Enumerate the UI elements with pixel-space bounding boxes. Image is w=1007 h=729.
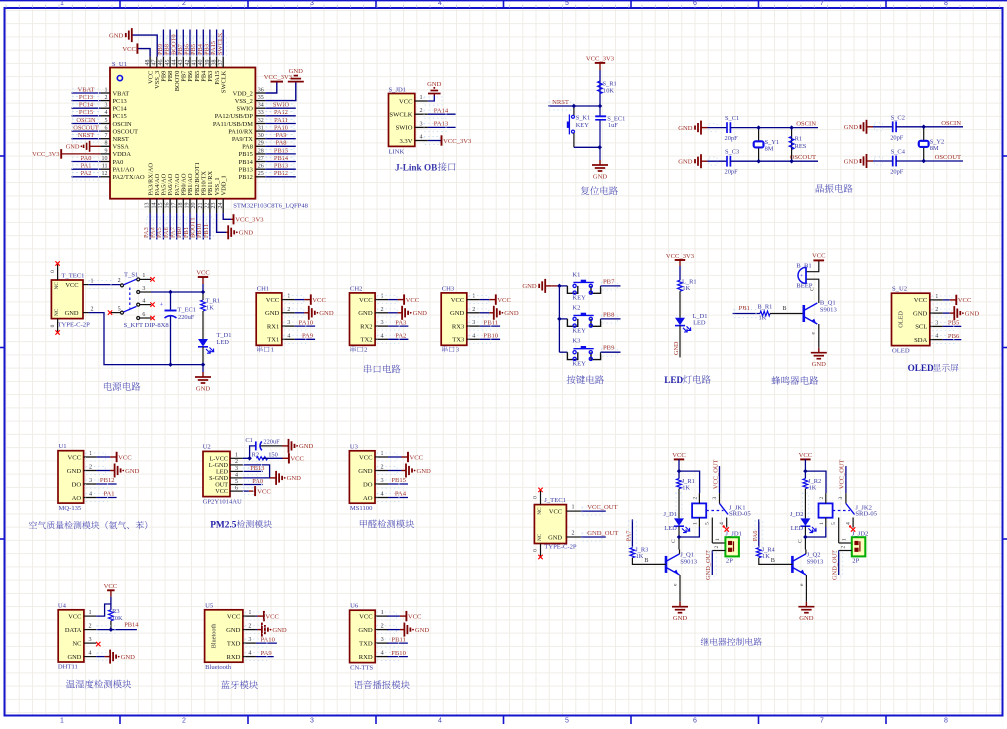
svg-text:LINK: LINK xyxy=(389,149,405,156)
svg-text:OSCOUT: OSCOUT xyxy=(113,128,139,135)
svg-text:SDA: SDA xyxy=(914,337,927,344)
svg-text:VDD_1: VDD_1 xyxy=(220,175,227,195)
svg-text:VCC: VCC xyxy=(122,46,136,53)
svg-text:4: 4 xyxy=(287,332,290,339)
svg-text:PA9: PA9 xyxy=(302,333,314,340)
svg-text:PA13: PA13 xyxy=(434,121,449,128)
svg-text:OLED: OLED xyxy=(898,311,905,328)
svg-text:PB13: PB13 xyxy=(274,163,288,170)
svg-text:39: 39 xyxy=(205,60,211,66)
svg-text:PA10: PA10 xyxy=(274,125,288,132)
svg-text:3.3V: 3.3V xyxy=(399,138,412,145)
svg-text:6: 6 xyxy=(105,126,108,132)
svg-text:B_Q1: B_Q1 xyxy=(820,300,836,307)
svg-text:KEY: KEY xyxy=(576,122,590,129)
svg-text:1: 1 xyxy=(715,538,721,541)
svg-text:4: 4 xyxy=(248,650,251,657)
svg-text:S_U2: S_U2 xyxy=(892,286,907,293)
svg-text:VCC_3V3: VCC_3V3 xyxy=(235,217,264,224)
svg-text:S_C4: S_C4 xyxy=(891,149,906,156)
svg-text:VCC: VCC xyxy=(215,488,228,495)
svg-text:2: 2 xyxy=(419,107,422,114)
svg-text:3: 3 xyxy=(142,286,145,292)
svg-text:3: 3 xyxy=(105,103,108,109)
svg-text:3: 3 xyxy=(89,477,92,484)
svg-text:2: 2 xyxy=(88,623,91,630)
svg-text:32: 32 xyxy=(258,118,264,124)
svg-text:GND: GND xyxy=(593,174,608,181)
svg-text:VCC: VCC xyxy=(290,456,304,463)
svg-text:12: 12 xyxy=(102,171,108,177)
svg-text:K3: K3 xyxy=(572,338,581,345)
svg-text:PC14: PC14 xyxy=(79,102,94,109)
svg-text:U5: U5 xyxy=(205,602,214,609)
svg-text:VCC: VCC xyxy=(68,613,81,620)
svg-text:4: 4 xyxy=(88,650,91,657)
svg-text:23: 23 xyxy=(211,203,217,209)
svg-text:0: 0 xyxy=(533,549,539,552)
svg-text:29: 29 xyxy=(258,141,264,147)
svg-text:S_C3: S_C3 xyxy=(725,149,739,156)
svg-text:1: 1 xyxy=(235,453,238,459)
svg-text:2: 2 xyxy=(89,464,92,471)
svg-text:PB9: PB9 xyxy=(603,345,615,352)
svg-text:PB11: PB11 xyxy=(484,319,498,326)
svg-text:8: 8 xyxy=(944,718,948,725)
svg-text:2P: 2P xyxy=(852,558,859,565)
svg-text:1: 1 xyxy=(91,279,94,285)
svg-text:1: 1 xyxy=(248,609,251,616)
svg-text:VCC: VCC xyxy=(257,488,271,495)
svg-text:PC15: PC15 xyxy=(113,113,127,120)
svg-text:VCC: VCC xyxy=(549,508,562,515)
svg-text:VCC: VCC xyxy=(799,452,813,459)
svg-text:4: 4 xyxy=(142,298,145,304)
svg-text:1K: 1K xyxy=(682,484,690,491)
svg-text:TYPE-C-2P: TYPE-C-2P xyxy=(58,322,91,329)
svg-text:14: 14 xyxy=(151,203,157,209)
svg-text:DHT11: DHT11 xyxy=(58,663,78,670)
svg-text:NC: NC xyxy=(537,533,543,541)
svg-text:10K: 10K xyxy=(112,615,123,622)
svg-text:STM32F103C8T6_LQFP48: STM32F103C8T6_LQFP48 xyxy=(233,202,308,209)
svg-text:5: 5 xyxy=(565,718,569,725)
svg-text:VCC: VCC xyxy=(312,297,326,304)
svg-text:4: 4 xyxy=(438,718,442,725)
svg-text:3: 3 xyxy=(310,718,314,725)
svg-text:B_R1: B_R1 xyxy=(757,304,772,311)
svg-text:36: 36 xyxy=(258,87,264,93)
svg-text:VCC: VCC xyxy=(958,297,972,304)
svg-text:CH1: CH1 xyxy=(257,285,269,292)
svg-text:VDD_2: VDD_2 xyxy=(233,90,253,97)
svg-text:OSCIN: OSCIN xyxy=(76,117,96,124)
svg-text:VCC: VCC xyxy=(359,297,373,304)
svg-text:OSCIN: OSCIN xyxy=(796,121,816,128)
svg-text:CH3: CH3 xyxy=(442,285,455,292)
svg-text:Bluetooth: Bluetooth xyxy=(211,623,218,649)
svg-text:3: 3 xyxy=(381,319,384,326)
svg-text:PB7: PB7 xyxy=(603,278,615,285)
svg-text:1: 1 xyxy=(142,273,145,279)
svg-text:0: 0 xyxy=(50,270,56,273)
svg-text:3: 3 xyxy=(838,497,844,500)
svg-text:1K: 1K xyxy=(759,315,767,322)
svg-text:1: 1 xyxy=(88,609,91,616)
svg-text:PA9/TX: PA9/TX xyxy=(232,136,253,143)
svg-text:OSCOUT: OSCOUT xyxy=(935,154,961,161)
svg-text:PB10: PB10 xyxy=(483,333,498,340)
svg-text:3: 3 xyxy=(235,466,238,472)
svg-text:PA0: PA0 xyxy=(252,478,263,485)
svg-text:5: 5 xyxy=(705,522,711,525)
svg-text:VSS_2: VSS_2 xyxy=(235,98,253,105)
svg-text:PB15: PB15 xyxy=(391,477,406,484)
svg-text:VBAT: VBAT xyxy=(113,90,130,97)
svg-text:GND: GND xyxy=(522,283,537,290)
svg-text:3: 3 xyxy=(287,319,290,326)
svg-text:5: 5 xyxy=(118,306,121,312)
svg-text:C: C xyxy=(671,539,677,543)
svg-text:1: 1 xyxy=(105,87,108,93)
svg-text:VCC: VCC xyxy=(104,583,118,590)
svg-text:2: 2 xyxy=(381,623,384,630)
svg-text:9: 9 xyxy=(105,148,108,154)
svg-text:VCC: VCC xyxy=(196,270,210,277)
svg-text:GND: GND xyxy=(548,534,562,541)
svg-text:GND: GND xyxy=(287,475,302,482)
svg-text:PA10: PA10 xyxy=(260,636,275,643)
svg-text:15: 15 xyxy=(158,203,164,209)
svg-text:VCC: VCC xyxy=(68,454,82,461)
svg-text:2: 2 xyxy=(381,306,384,313)
svg-text:6: 6 xyxy=(142,312,145,318)
svg-text:GND: GND xyxy=(678,125,693,132)
svg-text:7: 7 xyxy=(820,0,824,7)
svg-text:S9013: S9013 xyxy=(680,558,698,565)
svg-text:4: 4 xyxy=(235,472,238,478)
svg-text:B: B xyxy=(644,557,648,564)
svg-text:S9013: S9013 xyxy=(807,558,825,565)
svg-text:GND: GND xyxy=(417,468,432,475)
svg-text:PA12/USB/DP: PA12/USB/DP xyxy=(215,113,254,120)
svg-text:TX1: TX1 xyxy=(267,337,279,344)
svg-text:J_D1: J_D1 xyxy=(664,511,678,518)
svg-text:20: 20 xyxy=(191,203,197,209)
svg-text:17: 17 xyxy=(171,203,177,209)
svg-text:38: 38 xyxy=(211,60,217,66)
svg-text:OLED: OLED xyxy=(908,363,934,373)
svg-text:TX3: TX3 xyxy=(452,337,465,344)
svg-text:GND: GND xyxy=(504,310,519,317)
svg-text:1uF: 1uF xyxy=(608,122,618,129)
svg-text:PA8: PA8 xyxy=(242,144,253,151)
svg-text:J_Q2: J_Q2 xyxy=(807,551,821,558)
svg-text:+: + xyxy=(800,273,803,279)
svg-text:7: 7 xyxy=(105,133,108,139)
svg-text:GND: GND xyxy=(413,310,428,317)
svg-text:SWIO: SWIO xyxy=(273,102,290,109)
svg-text:R1: R1 xyxy=(795,135,802,142)
svg-text:PB12: PB12 xyxy=(274,170,288,177)
svg-text:GND: GND xyxy=(226,627,241,634)
svg-text:GND: GND xyxy=(844,158,859,165)
svg-text:DO: DO xyxy=(72,481,82,488)
svg-text:PB12: PB12 xyxy=(100,477,115,484)
svg-text:6: 6 xyxy=(693,718,697,725)
svg-text:PA1/AO: PA1/AO xyxy=(113,167,135,174)
svg-text:5: 5 xyxy=(831,522,837,525)
svg-text:PA11: PA11 xyxy=(274,117,288,124)
svg-text:NC: NC xyxy=(73,640,82,647)
svg-text:22: 22 xyxy=(205,203,211,209)
svg-text:VCC: VCC xyxy=(118,454,132,461)
svg-text:PA4: PA4 xyxy=(395,491,407,498)
svg-text:4: 4 xyxy=(935,333,938,340)
svg-text:PC14: PC14 xyxy=(113,106,128,113)
svg-text:GND: GND xyxy=(239,230,254,237)
svg-text:3: 3 xyxy=(380,477,383,484)
svg-text:PA12: PA12 xyxy=(274,109,288,116)
svg-text:1: 1 xyxy=(381,609,384,616)
svg-text:PB12: PB12 xyxy=(239,174,253,181)
svg-text:PA11/USB/DM: PA11/USB/DM xyxy=(213,121,253,128)
svg-text:24: 24 xyxy=(218,203,224,209)
svg-text:GND: GND xyxy=(66,144,80,151)
svg-text:T_S1: T_S1 xyxy=(124,272,138,279)
svg-text:KEY: KEY xyxy=(572,361,586,368)
svg-text:VDDA: VDDA xyxy=(113,151,132,158)
svg-text:GND: GND xyxy=(844,124,859,131)
svg-text:OSCOUT: OSCOUT xyxy=(73,125,99,132)
svg-text:PB8: PB8 xyxy=(603,311,615,318)
svg-text:PB15: PB15 xyxy=(239,151,253,158)
svg-text:13: 13 xyxy=(145,203,151,209)
svg-text:PB5: PB5 xyxy=(948,320,960,327)
svg-text:3: 3 xyxy=(472,319,475,326)
svg-text:8M: 8M xyxy=(930,145,939,152)
svg-text:PA1: PA1 xyxy=(103,491,114,498)
svg-text:2: 2 xyxy=(819,497,825,500)
svg-text:VCC_3V3: VCC_3V3 xyxy=(586,55,615,62)
svg-text:SRD-05: SRD-05 xyxy=(729,510,751,517)
svg-text:Bluetooth: Bluetooth xyxy=(205,664,232,671)
svg-text:J_JD2: J_JD2 xyxy=(852,530,869,537)
svg-text:VCC_3V3: VCC_3V3 xyxy=(443,138,472,145)
svg-text:1: 1 xyxy=(271,347,274,354)
svg-text:2: 2 xyxy=(714,546,720,549)
svg-text:0: 0 xyxy=(533,496,539,499)
svg-text:PA6: PA6 xyxy=(752,531,759,542)
svg-text:NC: NC xyxy=(54,282,60,290)
svg-text:42: 42 xyxy=(185,60,191,66)
svg-text:2: 2 xyxy=(118,278,121,284)
svg-text:OLED: OLED xyxy=(892,348,910,355)
svg-text:20pF: 20pF xyxy=(725,135,739,142)
svg-text:1K: 1K xyxy=(636,553,644,560)
svg-text:T_TEC1: T_TEC1 xyxy=(61,273,84,280)
svg-text:NRST: NRST xyxy=(78,132,94,139)
svg-text:31: 31 xyxy=(258,126,264,132)
svg-text:1: 1 xyxy=(287,293,290,300)
svg-text:T_R1: T_R1 xyxy=(206,298,221,305)
svg-text:47: 47 xyxy=(152,60,158,66)
svg-text:1: 1 xyxy=(819,522,825,525)
svg-text:RXD: RXD xyxy=(359,654,373,661)
svg-text:1K: 1K xyxy=(682,285,690,292)
svg-text:AO: AO xyxy=(72,495,82,502)
svg-text:RXD: RXD xyxy=(226,654,240,661)
svg-text:20pF: 20pF xyxy=(890,134,904,141)
svg-text:1K: 1K xyxy=(206,305,214,312)
svg-text:C: C xyxy=(798,539,804,543)
svg-text:GND: GND xyxy=(913,310,928,317)
svg-text:PB10: PB10 xyxy=(391,650,406,657)
svg-text:OSCIN: OSCIN xyxy=(941,120,961,127)
svg-text:44: 44 xyxy=(172,60,178,66)
svg-text:GND: GND xyxy=(965,310,980,317)
svg-text:GND: GND xyxy=(673,341,680,355)
svg-text:VCC_3V3: VCC_3V3 xyxy=(32,151,59,158)
svg-text:PB14: PB14 xyxy=(124,622,139,629)
svg-text:3: 3 xyxy=(712,497,718,500)
svg-text:RX2: RX2 xyxy=(360,323,372,330)
svg-text:2: 2 xyxy=(287,306,290,313)
svg-text:2P: 2P xyxy=(726,558,733,565)
svg-text:LED: LED xyxy=(791,525,804,532)
svg-text:LED: LED xyxy=(664,375,683,385)
svg-text:K1: K1 xyxy=(572,271,580,278)
svg-text:4: 4 xyxy=(472,332,475,339)
svg-text:4: 4 xyxy=(419,134,422,141)
svg-text:K2: K2 xyxy=(572,304,580,311)
svg-text:LED: LED xyxy=(217,339,230,346)
svg-text:MQ-135: MQ-135 xyxy=(59,505,82,512)
svg-text:2: 2 xyxy=(380,464,383,471)
svg-text:2: 2 xyxy=(91,307,94,313)
svg-text:PB13: PB13 xyxy=(239,167,253,174)
svg-text:4: 4 xyxy=(105,110,108,116)
svg-text:PA10: PA10 xyxy=(299,319,314,326)
svg-text:S_C1: S_C1 xyxy=(725,115,739,122)
svg-text:PA9: PA9 xyxy=(276,132,287,139)
svg-text:PA8: PA8 xyxy=(276,140,287,147)
svg-text:U1: U1 xyxy=(59,443,67,450)
svg-text:PB14: PB14 xyxy=(274,155,289,162)
svg-text:20pF: 20pF xyxy=(725,169,739,176)
svg-text:GND: GND xyxy=(196,386,211,393)
svg-text:KEY: KEY xyxy=(572,327,586,334)
svg-text:2: 2 xyxy=(692,497,698,500)
svg-text:SCL: SCL xyxy=(915,324,927,331)
svg-text:GND: GND xyxy=(299,443,314,450)
svg-text:PA2: PA2 xyxy=(395,333,406,340)
svg-text:4: 4 xyxy=(381,650,384,657)
svg-text:CH2: CH2 xyxy=(350,285,362,292)
svg-text:3: 3 xyxy=(248,636,251,643)
svg-text:OSCIN: OSCIN xyxy=(113,121,133,128)
svg-text:GND: GND xyxy=(358,627,373,634)
svg-text:8: 8 xyxy=(105,141,108,147)
svg-text:S_R1: S_R1 xyxy=(603,80,617,87)
svg-text:GND: GND xyxy=(427,81,442,88)
svg-text:GND: GND xyxy=(68,654,82,661)
svg-text:GND: GND xyxy=(121,654,136,661)
svg-text:27: 27 xyxy=(258,156,264,162)
svg-text:1: 1 xyxy=(60,718,64,725)
svg-text:PB11: PB11 xyxy=(391,636,405,643)
svg-text:3: 3 xyxy=(935,319,938,326)
svg-text:PA2: PA2 xyxy=(81,170,92,177)
svg-text:VCC: VCC xyxy=(359,454,373,461)
svg-text:VCC: VCC xyxy=(914,297,928,304)
svg-text:PA14: PA14 xyxy=(434,107,449,114)
svg-text:S_KFT DIP-8X8: S_KFT DIP-8X8 xyxy=(124,322,170,329)
svg-text:VCC: VCC xyxy=(359,613,373,620)
svg-text:150: 150 xyxy=(268,451,278,458)
svg-text:NC: NC xyxy=(537,507,543,515)
svg-text:1: 1 xyxy=(89,450,92,457)
svg-text:GND: GND xyxy=(358,310,373,317)
svg-text:2: 2 xyxy=(105,95,108,101)
svg-text:PA7: PA7 xyxy=(626,530,633,542)
svg-text:3: 3 xyxy=(381,636,384,643)
svg-text:VCC_3V3: VCC_3V3 xyxy=(666,253,695,260)
svg-text:PA3: PA3 xyxy=(395,319,407,326)
svg-text:J_JD1: J_JD1 xyxy=(725,530,742,537)
svg-text:PC13: PC13 xyxy=(79,94,93,101)
svg-text:PB15: PB15 xyxy=(274,147,288,154)
svg-text:11: 11 xyxy=(102,164,108,170)
svg-text:2: 2 xyxy=(182,718,186,725)
svg-text:4: 4 xyxy=(380,491,383,498)
svg-text:2: 2 xyxy=(472,306,475,313)
svg-text:VCC: VCC xyxy=(227,613,241,620)
svg-text:VCC_OUT: VCC_OUT xyxy=(712,460,719,490)
svg-text:U4: U4 xyxy=(58,602,67,609)
svg-text:220uF: 220uF xyxy=(178,314,195,321)
svg-text:SWIO: SWIO xyxy=(396,125,413,132)
svg-text:C1: C1 xyxy=(245,437,252,444)
svg-text:VCC: VCC xyxy=(812,253,826,260)
svg-text:26: 26 xyxy=(258,164,264,170)
svg-text:PB1: PB1 xyxy=(739,305,750,312)
svg-text:GND: GND xyxy=(415,627,430,634)
svg-text:5: 5 xyxy=(235,479,238,485)
svg-text:1: 1 xyxy=(60,0,64,7)
svg-text:TX2: TX2 xyxy=(361,337,373,344)
svg-text:25: 25 xyxy=(258,171,264,177)
svg-text:T_EC1: T_EC1 xyxy=(178,307,196,314)
svg-text:21: 21 xyxy=(198,203,204,209)
svg-text:PA10/RX: PA10/RX xyxy=(228,128,253,135)
svg-text:4: 4 xyxy=(89,491,92,498)
svg-text:GND: GND xyxy=(673,615,688,622)
svg-text:J_TEC1: J_TEC1 xyxy=(544,497,566,504)
svg-text:NRST: NRST xyxy=(113,136,129,143)
svg-text:VCC: VCC xyxy=(410,454,424,461)
svg-text:TYPE-C-2P: TYPE-C-2P xyxy=(544,544,577,551)
svg-text:2: 2 xyxy=(235,459,238,465)
svg-text:U6: U6 xyxy=(350,603,359,610)
svg-text:TXD: TXD xyxy=(227,640,241,647)
svg-text:GND: GND xyxy=(450,310,465,317)
svg-text:LED: LED xyxy=(664,525,677,532)
svg-text:220uF: 220uF xyxy=(263,438,280,445)
svg-text:B_B1: B_B1 xyxy=(796,262,811,269)
svg-text:1: 1 xyxy=(572,505,575,511)
svg-text:U2: U2 xyxy=(203,444,211,451)
